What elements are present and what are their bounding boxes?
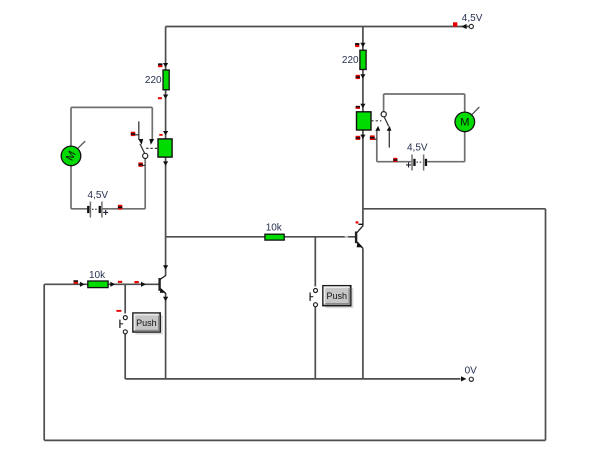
marker: red node above RL2 [356, 106, 360, 109]
svg-text:220: 220 [342, 55, 359, 66]
wire: right loop bottom left of battery B2 [377, 161, 411, 163]
marker: red dash on Q1 base wire [134, 281, 138, 283]
motor M1 (left, rotated) [61, 141, 85, 166]
current arrow: left emitter wire [163, 297, 168, 301]
current arrow: Q1 base wire after branch [141, 282, 146, 287]
current arrow: left vertical above RL1 [163, 131, 168, 135]
wire: Q1 base wire with R3 [44, 283, 159, 285]
resistor R1 220 (left, vertical) [163, 70, 169, 90]
wire: S1 to 0V rail [124, 334, 126, 379]
wire: Q2 emitter down to 0V rail [362, 249, 364, 379]
marker: red node before S1 branch [118, 281, 122, 283]
wire: right loop right upper [464, 94, 466, 112]
transistor Q1 (left NPN) [160, 275, 166, 293]
relay RL2 link (dashed) [371, 120, 381, 122]
motor M2 (right) [455, 107, 479, 132]
marker: light gap on Q2 base wire [345, 236, 348, 238]
wire: right loop bottom right of battery B2 [427, 161, 465, 163]
wire: left outer rail vertical [43, 284, 45, 440]
current arrow: right vertical below RL2 [360, 135, 365, 139]
current arrow: right vertical above RL2 [360, 104, 365, 108]
wire: junction to right outer rail [363, 208, 546, 210]
wire: left loop bottom left of battery B1 [71, 208, 87, 210]
marker: red node below RL2 [356, 136, 361, 140]
marker: red node above R2 [355, 43, 359, 47]
marker: red node at RL1 switch pole [138, 162, 145, 166]
wire: node B to Q2 base with R4 [166, 236, 356, 238]
wire: left loop bottom right of battery B1 [103, 208, 146, 210]
svg-text:0V: 0V [465, 365, 478, 376]
resistor R2 220 (right, vertical) [360, 50, 366, 69]
current arrow: right vertical above R2 [360, 43, 365, 47]
marker: red node above R1 [158, 63, 162, 67]
marker: red node on Q1 base wire left [74, 280, 79, 283]
wire: right motor loop pole lead [383, 94, 385, 112]
relay RL1 coil (left) [158, 139, 172, 157]
current arrow: Q1 base wire before R3 [80, 282, 85, 287]
wire: left loop to switch pole [144, 159, 146, 209]
relay RL1 switch [138, 121, 154, 158]
current arrow: left vertical below R1 [163, 95, 168, 99]
button: Push (right) [323, 286, 354, 309]
push switch S1 (left, push-to-make) [120, 316, 127, 334]
svg-text:+: + [103, 208, 109, 219]
wire: R1 to relay RL1 coil [165, 90, 167, 140]
wire: R2 to relay RL2 coil [362, 69, 364, 112]
marker: red node below R1 [158, 97, 162, 99]
button: Push (left) [133, 313, 163, 335]
svg-text:4,5V: 4,5V [407, 143, 428, 154]
wire: right outer rail vertical [545, 209, 547, 441]
push switch S2 (right, push-to-make) [310, 289, 317, 307]
svg-text:Push: Push [136, 318, 157, 328]
marker: red node on right loop bottom wire [393, 158, 397, 162]
current arrow: left vertical below RL1 [163, 161, 168, 165]
wire: left motor loop left upper [70, 107, 72, 146]
battery B1 4,5V (left, horizontal) [87, 202, 109, 219]
relay RL2 switch [375, 112, 391, 148]
marker: red node below R2 [356, 75, 360, 79]
wire: right loop right lower [464, 132, 466, 162]
marker: red node at RL1 switch floating contact [131, 132, 139, 136]
resistor R3 10k (left, horizontal) [88, 281, 108, 288]
current arrow: right vertical below R2 [360, 74, 365, 78]
current arrow: left vertical above Q1 [163, 265, 168, 269]
svg-text:4,5V: 4,5V [462, 13, 483, 24]
marker: red node on left loop bottom wire [118, 205, 122, 210]
svg-text:Push: Push [327, 291, 348, 301]
wire: Q1 emitter down to 0V rail [165, 293, 167, 379]
wire: RL1 coil to node B and transistor Q1 collector [165, 157, 167, 276]
terminal: 0V [461, 376, 473, 381]
svg-text:10k: 10k [266, 223, 283, 234]
current arrow: Q1 base wire after R3 [110, 282, 115, 287]
wire: top +4.5V rail [166, 26, 469, 28]
wire: right loop left vertical to switch contact [376, 130, 378, 162]
current arrow: left vertical above R1 [163, 63, 168, 67]
wire: branch down to push switch S2 [314, 237, 316, 287]
terminal: 4,5V supply [453, 22, 473, 29]
svg-text:4,5V: 4,5V [88, 190, 109, 201]
wire: left vertical from rail to resistor R1 [165, 27, 167, 71]
wire: right motor loop top [384, 93, 465, 95]
wire: left motor loop left lower [70, 166, 72, 209]
wire: S2 to 0V rail [314, 307, 316, 379]
wire: bottom outer rail [44, 439, 545, 441]
wire: left loop right vertical to switch contact [151, 107, 153, 139]
svg-text:220: 220 [145, 75, 162, 86]
resistor R4 10k (right, horizontal) [265, 234, 284, 240]
battery B2 4,5V (right, horizontal, mirrored) [406, 155, 427, 172]
wire: right vertical from rail to resistor R2 [362, 27, 364, 51]
marker: red node above RL1 [159, 134, 162, 136]
svg-text:M: M [460, 117, 469, 129]
wire: left motor loop top [71, 106, 152, 108]
wire: 0V horizontal rail [125, 378, 460, 380]
relay RL2 coil (right) [357, 112, 372, 130]
svg-text:10k: 10k [89, 270, 106, 281]
transistor Q2 (right NPN) [356, 226, 363, 249]
relay RL1 link (dashed) [146, 147, 158, 149]
wire: RL2 coil down to Q2 collector (junction at y=208.8) [362, 130, 364, 226]
wire: branch down to push switch S1 [124, 284, 126, 313]
svg-text:+: + [406, 161, 412, 172]
marker: red node at RL2 switch contact [370, 135, 377, 140]
marker: red dash above S1 [116, 310, 121, 312]
marker: red node + tick at Q2 collector [356, 221, 359, 223]
